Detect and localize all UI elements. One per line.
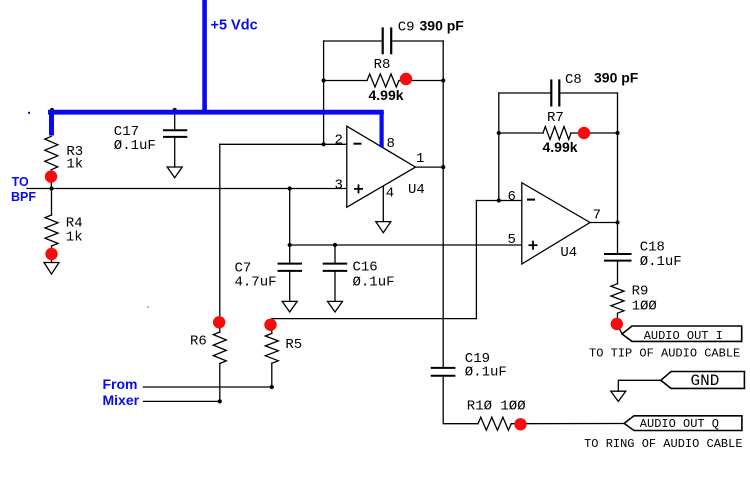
marker at R10 right bbox=[514, 418, 526, 430]
marker at R9 bottom bbox=[611, 318, 623, 330]
resistor R4 bbox=[45, 215, 58, 246]
svg-text:390 pF: 390 pF bbox=[594, 70, 639, 86]
wire C18 bottom lead to R9 bbox=[617, 262, 619, 284]
ground below C7 bbox=[282, 301, 297, 312]
node pin7 output junction bbox=[615, 220, 619, 224]
wire op-amp U4A output pin1 bbox=[416, 166, 444, 168]
node Mixer to R6 bbox=[218, 399, 222, 403]
svg-text:C9: C9 bbox=[398, 19, 415, 35]
tag AUDIO OUT Q bbox=[624, 416, 742, 431]
wire C9 loop right vertical down to C19 bbox=[442, 41, 444, 367]
op-amp U4A plus sign bbox=[354, 184, 363, 193]
svg-text:1k: 1k bbox=[66, 230, 83, 246]
svg-text:5: 5 bbox=[508, 232, 516, 248]
resistor R3 bbox=[45, 136, 58, 169]
node From to R5 bbox=[270, 385, 274, 389]
capacitor C18 plates bbox=[605, 254, 631, 261]
wire +5 bus horizontal bbox=[48, 110, 384, 115]
svg-text:GND: GND bbox=[691, 372, 720, 390]
capacitor C7 bottom lead bbox=[289, 272, 291, 302]
svg-text:TO: TO bbox=[12, 175, 29, 189]
wire R6 bottom to Mixer line bbox=[219, 364, 221, 402]
wire pin2 line from R6 corner to op-amp U4A inverting input bbox=[220, 143, 347, 145]
resistor R5 bbox=[265, 334, 278, 364]
svg-text:R5: R5 bbox=[285, 337, 302, 353]
svg-text:7: 7 bbox=[593, 208, 601, 224]
wire R7 left lead bbox=[499, 132, 543, 134]
svg-text:1: 1 bbox=[416, 151, 424, 167]
wire R7 right lead bbox=[571, 132, 618, 134]
wire +5 drop to op-amp U4A pin8 bbox=[380, 112, 384, 147]
node bias rail drop from BPF line bbox=[289, 189, 291, 246]
node pin1 output junction bbox=[441, 165, 445, 169]
op-amp U4B triangle bbox=[522, 183, 590, 264]
op-amp U4B plus sign bbox=[529, 241, 538, 250]
wire R8 right lead bbox=[399, 80, 443, 82]
wire op-amp U4B pin6 lead bbox=[476, 200, 521, 202]
svg-text:Ø.1uF: Ø.1uF bbox=[640, 254, 682, 270]
svg-text:TO RING OF AUDIO CABLE: TO RING OF AUDIO CABLE bbox=[584, 437, 742, 451]
wire R4 bottom to ground bbox=[51, 246, 53, 263]
svg-text:TO TIP OF AUDIO CABLE: TO TIP OF AUDIO CABLE bbox=[589, 346, 740, 360]
svg-text:1ØØ: 1ØØ bbox=[632, 299, 657, 315]
node bus dot at C17 bbox=[173, 108, 177, 112]
marker at R5 top bbox=[264, 319, 276, 331]
svg-text:8: 8 bbox=[387, 136, 395, 152]
stray blue dot artifact bbox=[28, 112, 30, 114]
capacitor C17 bottom lead bbox=[174, 138, 176, 167]
resistor R6 bbox=[213, 332, 226, 364]
wire BPF node to R4 bbox=[51, 189, 53, 216]
wire R3 bottom to BPF node bbox=[50, 170, 52, 189]
ground below C17 bbox=[167, 167, 182, 178]
svg-text:4.7uF: 4.7uF bbox=[235, 275, 277, 291]
wire From line bbox=[144, 386, 272, 388]
svg-text:3: 3 bbox=[335, 178, 343, 194]
svg-text:C18: C18 bbox=[640, 239, 665, 255]
capacitor C17 plates bbox=[164, 130, 186, 137]
capacitor C16 plates bbox=[324, 264, 347, 271]
resistor R9 bbox=[611, 284, 624, 314]
ground below GND tag bbox=[611, 391, 626, 401]
wire C8 loop top left bbox=[499, 92, 550, 94]
ground below op-amp U4A bbox=[376, 222, 391, 233]
svg-text:4.99k: 4.99k bbox=[369, 87, 404, 103]
wire +5 drop to R3 bbox=[49, 112, 54, 136]
resistor R8 bbox=[367, 74, 399, 87]
svg-text:R7: R7 bbox=[547, 110, 564, 126]
svg-text:R6: R6 bbox=[190, 333, 207, 349]
capacitor C17 top lead bbox=[174, 113, 176, 129]
svg-text:U4: U4 bbox=[560, 245, 577, 261]
wire C9 loop top left bbox=[324, 40, 381, 42]
svg-text:R8: R8 bbox=[374, 57, 391, 73]
svg-text:U4: U4 bbox=[408, 182, 425, 198]
marker at R4 bottom bbox=[45, 248, 57, 260]
op-amp U4B minus sign bbox=[527, 199, 535, 201]
ground below R4 bbox=[44, 263, 59, 275]
wire C9 loop top right bbox=[393, 40, 443, 42]
node R8 right bbox=[441, 78, 445, 82]
svg-text:+5 Vdc: +5 Vdc bbox=[211, 17, 258, 33]
svg-text:390 pF: 390 pF bbox=[420, 18, 465, 34]
node C16 top bbox=[333, 243, 337, 247]
wire R8 left lead bbox=[324, 80, 367, 82]
wire op-amp U4B output pin7 bbox=[590, 222, 618, 224]
wire +5 Vdc vertical feed bbox=[202, 0, 207, 112]
node bias drop junction bbox=[288, 186, 292, 190]
node BPF junction bbox=[49, 186, 53, 190]
svg-text:C8: C8 bbox=[565, 72, 582, 88]
wire R6 branch vertical from pin2 corner down to R6 bbox=[219, 144, 221, 332]
red junction markers bbox=[45, 73, 623, 431]
tag GND bbox=[661, 372, 745, 389]
wire R5 top to pin6 riser bbox=[272, 201, 477, 334]
wire R5 bottom to From line bbox=[271, 363, 273, 387]
node R7 right bbox=[615, 131, 619, 135]
marker at R8 right bbox=[400, 73, 412, 85]
wire Mixer line bbox=[144, 400, 220, 402]
node R7 left bbox=[497, 131, 501, 135]
svg-text:From: From bbox=[103, 376, 138, 392]
op-amp U4A triangle bbox=[347, 126, 416, 207]
resistor R7 bbox=[543, 127, 571, 140]
tag AUDIO OUT I bbox=[622, 326, 742, 341]
wire R10 right lead to AUDIO OUT Q tag bbox=[511, 423, 624, 425]
wire C8 loop right vertical down to C18 bbox=[617, 93, 619, 253]
capacitor C7 plates bbox=[279, 264, 302, 271]
svg-text:R9: R9 bbox=[632, 284, 649, 300]
svg-text:C16: C16 bbox=[353, 260, 378, 276]
capacitor C9 plates bbox=[383, 29, 392, 54]
node C7 top bbox=[288, 243, 292, 247]
wire bias rail to op-amp U4B pin 5 bbox=[290, 244, 522, 246]
capacitor C7 top lead bbox=[289, 245, 291, 263]
svg-text:AUDIO OUT Q: AUDIO OUT Q bbox=[640, 417, 719, 431]
op-amp U4A minus sign bbox=[354, 143, 362, 145]
wire op-amp U4A pin4 to ground bbox=[382, 187, 384, 222]
svg-text:4.99k: 4.99k bbox=[543, 139, 578, 155]
capacitor C16 top lead bbox=[334, 245, 336, 263]
svg-text:Ø.1uF: Ø.1uF bbox=[114, 138, 156, 154]
marker at R6 top bbox=[213, 316, 225, 328]
wire C8 loop top right bbox=[561, 92, 618, 94]
wire GND tag lead bbox=[618, 380, 661, 391]
svg-text:2: 2 bbox=[335, 132, 343, 148]
node bus dot at +5 feed bbox=[203, 107, 207, 111]
capacitor C16 bottom lead bbox=[334, 272, 336, 302]
wire C9 loop left vertical bbox=[323, 41, 325, 144]
capacitor C8 plates bbox=[551, 81, 559, 106]
wire R9 bottom to AUDIO OUT I tag bbox=[617, 313, 622, 334]
node pin2 junction bbox=[322, 142, 326, 146]
svg-text:BPF: BPF bbox=[11, 190, 36, 204]
capacitor C19 plates bbox=[432, 368, 455, 376]
svg-text:Ø.1uF: Ø.1uF bbox=[465, 365, 507, 381]
wire C19 bottom lead to R10 bbox=[443, 377, 478, 424]
stray gray dot artifact bbox=[147, 306, 149, 308]
svg-text:4: 4 bbox=[386, 186, 394, 202]
svg-text:1k: 1k bbox=[66, 157, 83, 173]
node bus dot at R3 drop bbox=[50, 108, 54, 112]
svg-text:Mixer: Mixer bbox=[103, 392, 140, 408]
marker at R7 right bbox=[578, 127, 590, 139]
svg-text:6: 6 bbox=[508, 189, 516, 205]
wire TO BPF line to op-amp U4A non-inverting input bbox=[27, 188, 347, 190]
wire C8 loop left vertical bbox=[498, 93, 500, 201]
node R8 left bbox=[322, 78, 326, 82]
ground below C16 bbox=[328, 301, 343, 312]
node pin6 junction bbox=[497, 198, 501, 202]
svg-text:Ø.1uF: Ø.1uF bbox=[353, 275, 395, 291]
svg-text:R1Ø 1ØØ: R1Ø 1ØØ bbox=[467, 399, 526, 415]
resistor R10 bbox=[478, 417, 511, 430]
svg-text:AUDIO OUT I: AUDIO OUT I bbox=[644, 329, 723, 343]
marker at R3 bottom bbox=[45, 170, 57, 182]
blue +5V wiring bbox=[48, 0, 384, 147]
